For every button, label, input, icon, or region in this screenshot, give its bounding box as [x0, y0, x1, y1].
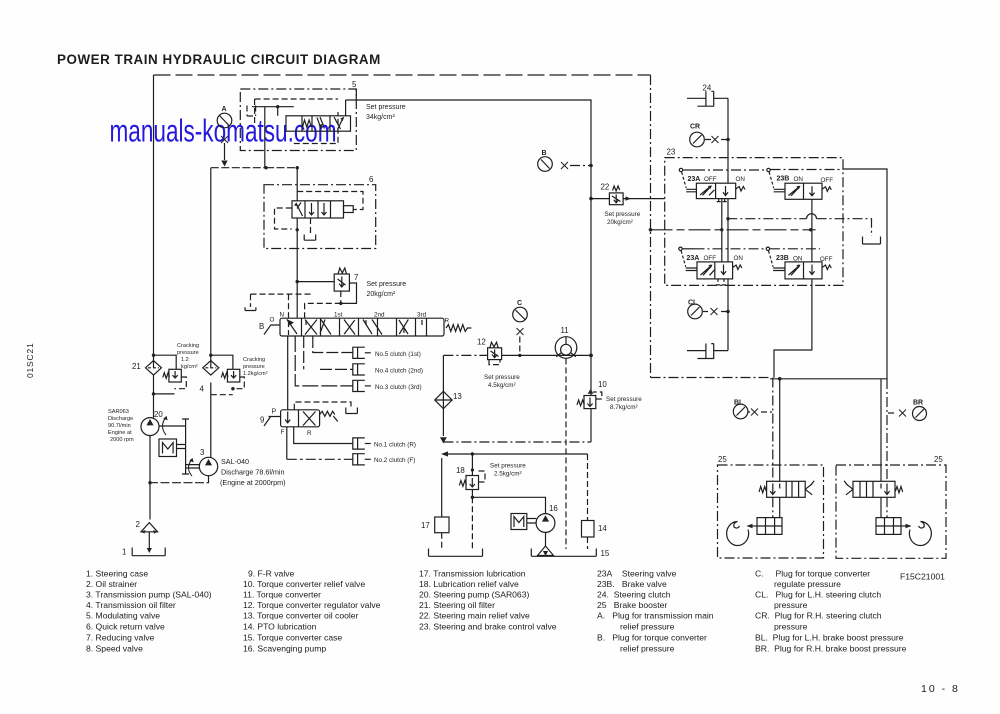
valve6 pilot box left [275, 208, 292, 229]
clutch cylinder No.5 [353, 347, 365, 358]
svg-text:24. Steering clutch: 24. Steering clutch [597, 590, 671, 600]
wire valve5 left port drop [264, 107, 266, 168]
svg-text:regulate pressure: regulate pressure [774, 579, 841, 589]
svg-text:23A: 23A [687, 255, 700, 262]
wire valve5 pilot header [252, 106, 294, 108]
svg-text:1.2kg/cm²: 1.2kg/cm² [243, 371, 268, 377]
clutch cylinder No.4 [353, 364, 365, 375]
booster valve right [853, 481, 895, 497]
svg-text:CR. Plug for R.H. steering cl: CR. Plug for R.H. steering clutch [755, 611, 882, 621]
tank right of box23 [863, 237, 881, 245]
wire pump20 suction down [149, 436, 151, 520]
valve9 spring lever right [320, 411, 338, 421]
node junction A-line [471, 452, 474, 455]
svg-text:POWER TRAIN HYDRAULIC CIRCUIT: POWER TRAIN HYDRAULIC CIRCUIT DIAGRAM [57, 52, 381, 67]
svg-text:3: 3 [200, 448, 205, 457]
svg-text:pressure: pressure [243, 364, 265, 370]
svg-text:16: 16 [549, 504, 558, 513]
steering clutch cylinder 24 bottom [687, 344, 728, 359]
svg-text:7. Reducing valve: 7. Reducing valve [86, 633, 155, 643]
svg-text:34kg/cm²: 34kg/cm² [366, 114, 395, 121]
wire 23A upper outputs twin [722, 199, 728, 262]
svg-text:17. Transmission lubrication: 17. Transmission lubrication [419, 569, 526, 579]
svg-text:8.7kg/cm²: 8.7kg/cm² [610, 404, 638, 411]
svg-text:2. Oil strainer: 2. Oil strainer [86, 579, 137, 589]
wire steering cross line y230 [651, 229, 816, 231]
svg-text:B. Plug for torque converter: B. Plug for torque converter [597, 633, 707, 643]
svg-text:OFF: OFF [704, 255, 717, 262]
svg-text:8. Speed valve: 8. Speed valve [86, 644, 143, 654]
svg-text:ON: ON [736, 176, 746, 183]
pump 20 shaft and rotation arrow [159, 419, 186, 474]
svg-text:A: A [222, 106, 227, 113]
svg-text:R: R [307, 430, 312, 437]
wire valve6 to tank [310, 218, 312, 234]
svg-text:BR. Plug for R.H. brake boost: BR. Plug for R.H. brake boost pressure [755, 644, 907, 654]
svg-text:14. PTO lubrication: 14. PTO lubrication [243, 622, 317, 632]
svg-text:C: C [517, 300, 522, 307]
svg-text:relief pressure: relief pressure [620, 644, 675, 654]
svg-text:17: 17 [421, 521, 430, 530]
svg-text:11: 11 [561, 326, 569, 335]
wire LH booster feeds [772, 378, 774, 482]
svg-text:21. Steering oil filter: 21. Steering oil filter [419, 600, 495, 610]
svg-text:B: B [259, 322, 264, 331]
svg-text:Set pressure: Set pressure [484, 374, 520, 381]
svg-text:7: 7 [354, 273, 358, 282]
svg-text:OFF: OFF [704, 176, 717, 183]
valve9 pilot dashed to tank [294, 402, 351, 410]
svg-text:20: 20 [154, 410, 163, 419]
svg-text:C. Plug for torque convert: C. Plug for torque converter [755, 569, 870, 579]
wire transmission main pressure line [346, 100, 591, 396]
svg-text:No.3 clutch (3rd): No.3 clutch (3rd) [375, 384, 422, 391]
wire lubrication line y442 [443, 441, 591, 443]
svg-text:23. Steering and brake control: 23. Steering and brake control valve [419, 622, 557, 632]
svg-text:20kg/cm²: 20kg/cm² [367, 291, 396, 298]
svg-text:11. Torque converter: 11. Torque converter [243, 590, 321, 600]
svg-text:F15C21001: F15C21001 [900, 572, 945, 582]
svg-text:12: 12 [477, 338, 486, 347]
svg-text:6: 6 [369, 175, 374, 184]
valve6 pilot dashed loop [297, 192, 363, 210]
svg-text:20kg/cm²: 20kg/cm² [607, 219, 633, 226]
wire TC drain dashed [565, 358, 567, 549]
svg-text:BL: BL [734, 400, 744, 407]
svg-text:BR: BR [913, 400, 923, 407]
svg-text:pressure: pressure [774, 622, 808, 632]
wire modulating feed header [211, 167, 297, 169]
svg-text:1. Steering case: 1. Steering case [86, 569, 148, 579]
svg-text:kg/cm²: kg/cm² [181, 364, 198, 370]
arrow left on y454 [441, 451, 448, 456]
wire 23B lower output [774, 279, 812, 378]
svg-text:9. F-R valve: 9. F-R valve [248, 569, 295, 579]
svg-text:25 Brake booster: 25 Brake booster [597, 600, 667, 610]
svg-text:9: 9 [260, 416, 265, 425]
valve7 pilot loop [341, 283, 357, 303]
wire valve6 output down [296, 218, 298, 318]
svg-text:B: B [542, 150, 547, 157]
wire pump3 suction [150, 476, 209, 483]
svg-text:No.5 clutch (1st): No.5 clutch (1st) [375, 351, 421, 358]
svg-text:2000 rpm: 2000 rpm [110, 437, 134, 443]
svg-text:18: 18 [456, 466, 465, 475]
pump16 suction strainer [545, 532, 547, 546]
wire 23A lower output to LH clutch cylinder [727, 279, 729, 351]
wire steering pump riser left [153, 75, 155, 368]
svg-text:BL. Plug for L.H. brake boost: BL. Plug for L.H. brake boost pressure [755, 633, 904, 643]
svg-text:F: F [281, 429, 285, 436]
valve 5 inner dashed housing [255, 99, 338, 144]
booster cylinder right [886, 497, 888, 517]
svg-text:SAR063: SAR063 [108, 409, 129, 415]
svg-text:23B. Brake valve: 23B. Brake valve [597, 579, 667, 589]
wire brake booster feed horizontal [651, 377, 771, 379]
wire box23 right exit to RH riser [843, 169, 887, 379]
arrow at lube line [440, 437, 447, 443]
svg-text:SAL-040: SAL-040 [221, 457, 249, 466]
svg-text:relief pressure: relief pressure [620, 622, 675, 632]
clutch cylinder No.1 [353, 438, 365, 449]
booster valve left [767, 481, 806, 497]
wire steering clutch riser [727, 98, 729, 183]
wire steering supply top dashed line [154, 74, 651, 76]
wire valve9 to clutch2 [286, 427, 288, 460]
svg-text:pressure: pressure [177, 350, 199, 356]
clutch cylinder No.3 [353, 380, 365, 391]
svg-text:90.7l/min: 90.7l/min [108, 423, 131, 429]
valve8 spring right [446, 325, 471, 332]
svg-text:18. Lubrication relief valve: 18. Lubrication relief valve [419, 579, 519, 589]
check valve bypass 4 [211, 355, 233, 369]
valve5 arrows [317, 117, 344, 130]
check valve bypass 21 [154, 355, 177, 369]
valve8 internal arrows [287, 319, 295, 326]
motor M for pump20 [159, 439, 177, 457]
svg-text:14: 14 [598, 524, 607, 533]
svg-text:21: 21 [132, 362, 141, 371]
svg-text:Set pressure: Set pressure [606, 396, 642, 403]
svg-text:2nd: 2nd [374, 312, 385, 319]
svg-text:10. Torque converter relief va: 10. Torque converter relief valve [243, 579, 365, 589]
svg-text:23B: 23B [776, 255, 789, 262]
svg-text:24: 24 [703, 84, 712, 93]
svg-text:3. Transmission pump (SAL-040: 3. Transmission pump (SAL-040) [86, 590, 212, 600]
valve5 spring [303, 120, 312, 127]
svg-text:Engine at: Engine at [108, 430, 132, 436]
svg-text:A. Plug for transmission mai: A. Plug for transmission main [597, 611, 714, 621]
clutch cylinder No.2 [353, 454, 365, 465]
svg-text:01SC21: 01SC21 [25, 342, 35, 378]
svg-text:pressure: pressure [774, 600, 808, 610]
wire transmission riser to filter 4 [210, 168, 212, 369]
svg-text:Set pressure: Set pressure [366, 104, 406, 111]
wire valve8 to clutch 5 [313, 336, 353, 353]
wire steering line down right [650, 75, 652, 378]
svg-text:6. Quick return valve: 6. Quick return valve [86, 622, 165, 632]
wire to PTO lube box 14 [587, 454, 589, 521]
svg-text:16. Scavenging pump: 16. Scavenging pump [243, 644, 326, 654]
brake band hook left [727, 522, 749, 546]
svg-text:5: 5 [352, 80, 357, 89]
svg-text:No.2 clutch (F): No.2 clutch (F) [374, 457, 415, 464]
tank symbol in box5 [247, 106, 256, 117]
svg-text:1.2: 1.2 [181, 357, 189, 363]
wire valve8 to clutch 4 [304, 336, 353, 369]
svg-text:N: N [280, 312, 285, 319]
svg-text:22: 22 [601, 183, 610, 192]
svg-text:12. Torque converter regulator: 12. Torque converter regulator valve [243, 600, 381, 610]
wire 23B upper output [811, 199, 813, 262]
svg-text:Discharge: Discharge [108, 416, 133, 422]
wire valve12 to TC [502, 354, 591, 356]
brake band hook right [909, 522, 931, 546]
svg-text:Cracking: Cracking [243, 357, 265, 363]
svg-text:4.5kg/cm²: 4.5kg/cm² [488, 382, 516, 389]
svg-text:23B: 23B [777, 176, 790, 183]
svg-text:20. Steering pump (SAR063): 20. Steering pump (SAR063) [419, 590, 529, 600]
wire main line below valve 10 [590, 409, 592, 442]
svg-text:23: 23 [667, 148, 676, 157]
svg-text:4. Transmission oil filter: 4. Transmission oil filter [86, 600, 176, 610]
wire valve18 down to junction [471, 490, 473, 498]
trans lube bracket [429, 549, 483, 557]
svg-text:22. Steering main relief valve: 22. Steering main relief valve [419, 611, 530, 621]
svg-text:1: 1 [122, 548, 126, 557]
svg-text:10 - 8: 10 - 8 [921, 683, 960, 695]
svg-text:23A: 23A [688, 176, 701, 183]
wire valve8 to clutch 3 [295, 336, 353, 386]
valve 5 body [286, 116, 351, 131]
wire valve5 output riser [345, 100, 347, 116]
svg-text:3rd: 3rd [417, 312, 427, 319]
svg-text:25: 25 [934, 455, 943, 464]
svg-text:No.4 clutch (2nd): No.4 clutch (2nd) [375, 367, 423, 374]
svg-text:15: 15 [601, 549, 610, 558]
svg-text:23A Steering valve: 23A Steering valve [597, 569, 677, 579]
wire valve9 to clutch1 [294, 427, 353, 444]
svg-text:13: 13 [453, 392, 462, 401]
wire lubrication line y454 [446, 453, 588, 455]
svg-text:O: O [270, 317, 275, 324]
wire pilot dashdot y219 [727, 219, 871, 236]
svg-text:1st: 1st [334, 312, 343, 319]
svg-text:ON: ON [734, 255, 744, 262]
svg-text:R: R [445, 318, 450, 325]
svg-text:13. Torque converter oil coole: 13. Torque converter oil cooler [243, 611, 359, 621]
svg-text:Discharge 78.6l/min: Discharge 78.6l/min [221, 468, 285, 477]
svg-text:No.1 clutch (R): No.1 clutch (R) [374, 441, 416, 448]
valve 6 body [292, 201, 344, 218]
svg-text:CL: CL [688, 300, 698, 307]
svg-text:(Engine at 2000rpm): (Engine at 2000rpm) [220, 478, 286, 487]
svg-text:CR: CR [690, 124, 700, 131]
svg-text:4: 4 [200, 385, 205, 394]
booster cylinder left [772, 497, 774, 517]
svg-text:Set pressure: Set pressure [367, 281, 407, 288]
svg-text:CL. Plug for L.H. steering c: CL. Plug for L.H. steering clutch [755, 590, 881, 600]
svg-text:15. Torque converter case: 15. Torque converter case [243, 633, 342, 643]
svg-text:Set pressure: Set pressure [605, 211, 641, 218]
valve6 end cap [344, 206, 354, 213]
wire feed into valve6 [296, 168, 298, 201]
wire valve8 to valve9 [287, 336, 289, 410]
svg-text:ON: ON [794, 176, 804, 183]
svg-text:2.5kg/cm²: 2.5kg/cm² [494, 471, 522, 478]
wire to scavenging pump [472, 497, 545, 513]
valve8 pilot tank left [251, 293, 312, 295]
svg-text:25: 25 [718, 455, 727, 464]
svg-text:Set pressure: Set pressure [490, 463, 526, 470]
svg-text:Cracking: Cracking [177, 343, 199, 349]
svg-text:P: P [272, 409, 277, 416]
wire RH booster solid feed [880, 379, 882, 482]
svg-text:2: 2 [136, 520, 140, 529]
svg-text:10: 10 [598, 380, 607, 389]
svg-text:5. Modulating valve: 5. Modulating valve [86, 611, 160, 621]
